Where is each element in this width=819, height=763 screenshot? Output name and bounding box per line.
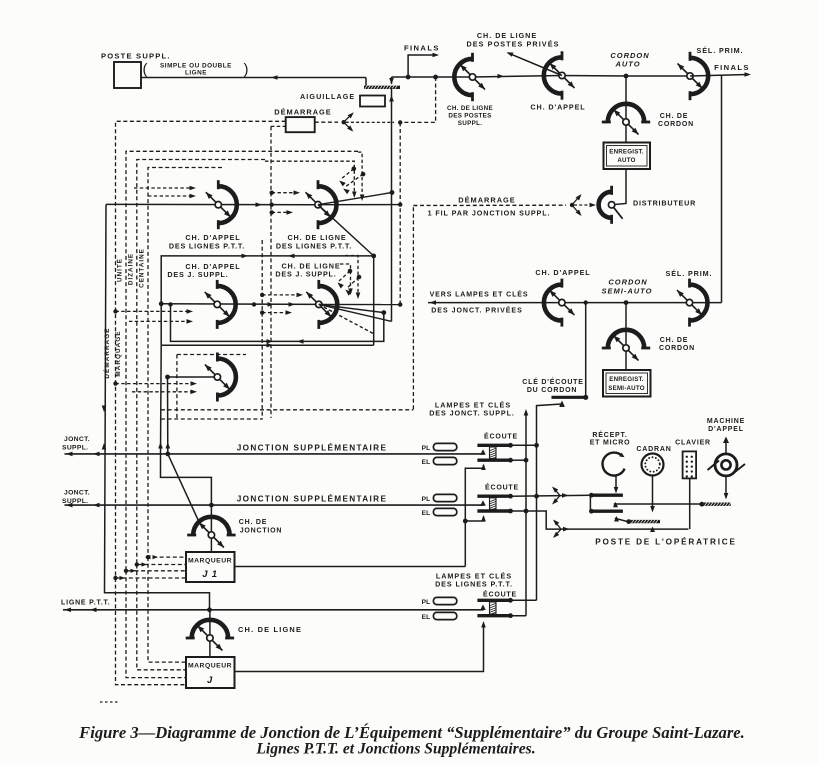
wire clavier down [689,478,691,530]
wire into ch de jonction [210,505,212,552]
ecoute jack 2 bars [477,495,509,498]
fan wires from CH DE LIGNE PTT [318,193,392,205]
svg-text:1 FIL PAR JONCTION SUPPL.: 1 FIL PAR JONCTION SUPPL. [428,209,551,218]
feeder arrows into marqueur J1 [153,555,159,559]
finals output arrow [690,75,748,77]
node [524,509,529,514]
node [381,310,386,315]
box ENREGIST. AUTO [604,143,651,170]
selector DISTRIBUTEUR [599,186,623,224]
node [135,562,139,566]
svg-text:CH. D'APPEL: CH. D'APPEL [535,268,590,277]
svg-text:): ) [244,61,249,78]
dashed marqueur J feeders [148,557,186,662]
box ENREGIST. SEMI-AUTO [603,370,651,397]
hatched bar 2 [628,520,660,523]
label CH. D APPEL DES J. SUPPL. [167,262,240,279]
svg-text:CORDON: CORDON [658,121,694,128]
dashed bus centaine [148,168,222,558]
dashed bus marquage [116,121,286,578]
node [209,503,214,508]
dashed vertical V2 [399,122,401,305]
branch to jack2 [465,517,483,522]
clavier symbol [683,451,697,478]
node [584,300,588,304]
label JONCT. SUPPL. 2 [62,490,90,506]
aiguillage box [360,96,385,107]
svg-text:DES POSTES: DES POSTES [448,113,491,120]
label CLE D ECOUTE DU CORDON [522,377,583,394]
svg-text:CH. DE LIGNE: CH. DE LIGNE [447,105,493,112]
label CH. D APPEL DES LIGNES P.T.T. [169,233,245,251]
node [508,509,513,514]
node [508,494,513,499]
contact triangle bottom wire [650,527,655,533]
machine d appel top arrow [725,440,727,453]
svg-text:SUPPL.: SUPPL. [458,120,483,127]
dashed bus dizaine [137,160,265,565]
node [165,452,170,457]
svg-text:ENREGIST.: ENREGIST. [609,149,644,156]
svg-text:JONCT.: JONCT. [64,436,90,443]
selector CH. D'APPEL DES LIGNES P.T.T. [206,180,237,229]
dashed arrows into CH. DE LIGNE PTT [270,190,301,195]
svg-text:CADRAN: CADRAN [636,446,671,453]
selector CH. D'APPEL (cordon) [544,279,575,327]
svg-text:AUTO: AUTO [617,157,635,164]
label CH. DE JONCTION [239,519,283,535]
dashed cluster right of CH DE LIGNE PTT [358,152,362,198]
svg-text:ÉCOUTE: ÉCOUTE [485,483,519,492]
wire ch d appel down to cle [585,303,587,396]
wire connecting bars [589,495,591,511]
svg-text:(: ( [143,61,148,78]
svg-text:ÉCOUTE: ÉCOUTE [483,590,517,599]
node [113,309,117,313]
node [398,302,402,306]
wire dashes remnant [100,701,120,703]
wire 341 return [171,304,384,341]
dashed vertical V3 [412,207,414,410]
svg-text:RÉCEPT.: RÉCEPT. [592,430,627,439]
marqueur J1 wire up to jack1 [465,465,483,567]
box DEMARRAGE [286,117,315,132]
node [433,75,438,80]
ecoute jack 1 bars [477,444,509,447]
dashed vertical from trunk to demarrage row [400,77,435,122]
svg-text:PL: PL [422,496,431,503]
label CH. DE LIGNE DES LIGNES P.T.T. [276,233,352,251]
node [113,381,117,385]
label CH. DE LIGNE DES POSTES SUPPL. [447,105,493,127]
row2 box right edge [373,256,375,345]
svg-text:CORDON: CORDON [659,345,695,352]
ecoute jack 3 bars [477,599,509,602]
contact triangle jack2 [480,500,486,506]
svg-text:CH. DE: CH. DE [660,337,689,344]
svg-text:J 1: J 1 [202,569,218,580]
node [583,395,588,400]
operator key bar 1 [590,494,623,497]
svg-text:CH. DE LIGNE: CH. DE LIGNE [238,625,302,634]
node [624,300,629,305]
wire cordon semi down [625,303,627,370]
svg-text:CENTAINE: CENTAINE [139,248,146,288]
svg-text:EL: EL [422,459,431,466]
dashed bus unite [126,151,358,571]
svg-text:DIZAINE: DIZAINE [128,253,135,285]
svg-text:VERS LAMPES ET CLÉS: VERS LAMPES ET CLÉS [430,290,529,299]
svg-text:LIGNE P.T.T.: LIGNE P.T.T. [61,600,111,607]
svg-text:DES LIGNES P.T.T.: DES LIGNES P.T.T. [276,242,352,251]
node cordon auto [624,74,629,79]
selector CH. D'APPEL (postes prives) [544,51,575,99]
node [270,203,274,207]
box MARQUEUR J [186,657,235,688]
svg-text:SUPPL.: SUPPL. [62,498,88,505]
aiguillage vertical bus [391,88,393,193]
wire row2 [161,303,319,306]
label CH. DE CORDON (semi) [659,337,695,352]
dashed arrows into CH DE LIGNE J SUPPL [260,293,303,298]
selector CH. DE LIGNE DES POSTES SUPPL. [454,53,485,101]
demarrage solid bus vertical [105,204,210,609]
wire jack1 bottom to bus [511,459,527,461]
svg-text:CH. D'APPEL: CH. D'APPEL [530,103,585,112]
node [398,202,402,206]
label RECEPT. ET MICRO [590,430,631,447]
wire recept down [615,476,617,491]
selector CH. DE LIGNE (bottom) [186,620,234,651]
operator key bar 2 [590,510,623,513]
svg-text:ÉCOUTE: ÉCOUTE [484,432,518,441]
selector SEL. PRIM. (top) [678,52,709,100]
node [508,613,513,618]
svg-text:DÉMARRAGE: DÉMARRAGE [458,196,515,205]
svg-text:PL: PL [422,599,431,606]
node [390,190,395,195]
splay arrows 1 [552,487,569,505]
svg-text:PL: PL [422,445,431,452]
node [534,443,539,448]
svg-text:Lignes P.T.T. et Jonctions Sup: Lignes P.T.T. et Jonctions Supplémentair… [255,741,535,758]
svg-text:JONCTION SUPPLÉMENTAIRE: JONCTION SUPPLÉMENTAIRE [237,443,388,453]
selector CH. DE CORDON (semi) [602,330,650,361]
svg-text:CLAVIER: CLAVIER [675,440,711,447]
selector CH. DE LIGNE DES LIGNES P.T.T. [306,180,337,229]
label LAMPES ET CLES DES LIGNES P.T.T. [435,572,513,589]
wire marqueur J output [235,624,484,672]
svg-text:MARQUEUR: MARQUEUR [188,558,232,565]
svg-text:DES JONCT. SUPPL.: DES JONCT. SUPPL. [429,409,515,418]
wire row3 [168,376,218,378]
svg-text:DES JONCT. PRIVÉES: DES JONCT. PRIVÉES [431,306,523,315]
wire operator line 1 [614,503,701,505]
wire jack2 bottom [511,511,689,529]
svg-text:SUPPL.: SUPPL. [62,445,88,452]
node [626,519,631,524]
svg-text:FINALS: FINALS [404,44,440,53]
box MARQUEUR J1 [186,552,235,582]
label JONCT. SUPPL. 1 [62,436,90,452]
dashed arrows into CH. D APPEL PTT [134,186,196,191]
node [165,375,170,380]
node [508,443,513,448]
finals arrow [408,55,436,77]
left verticals to jonction lines [160,345,163,454]
svg-text:MARQUEUR: MARQUEUR [188,663,232,670]
svg-text:JONCT.: JONCT. [64,490,90,497]
label CH. DE LIGNE DES POSTES PRIVES [467,31,560,49]
svg-text:AIGUILLAGE: AIGUILLAGE [300,92,355,101]
svg-text:POSTE SUPPL.: POSTE SUPPL. [101,52,171,61]
recept et micro symbol [603,453,625,476]
svg-text:POSTE DE L'OPÉRATRICE: POSTE DE L'OPÉRATRICE [595,537,737,547]
splay arrows 2 [553,520,570,539]
dashed from demarrage box to splay [315,121,338,123]
contact triangle jack3 [480,605,486,611]
svg-text:FINALS: FINALS [714,63,750,72]
wire marqueur J1 output [235,566,466,568]
wire finals junction vertical [391,77,393,84]
svg-text:EL: EL [422,510,431,517]
svg-text:EL: EL [422,614,431,621]
node [589,493,594,498]
wire jonction supplementaire 2 [65,504,484,506]
wire jack2 top to operator [511,495,592,496]
fan wires from CH DE LIGNE J SUPPL [319,303,399,305]
wire jack3 top to bus [509,599,536,601]
wire trunk arrow [498,74,505,79]
bus B2 [525,412,527,616]
wire elbow down to aiguillage contact [365,78,367,86]
svg-text:DES POSTES PRIVÉS: DES POSTES PRIVÉS [467,40,560,49]
node finals [406,75,411,80]
svg-text:DISTRIBUTEUR: DISTRIBUTEUR [633,199,696,208]
machine d appel symbol [708,454,746,476]
wire vers lampes et cles [428,302,722,304]
selector CH. DE LIGNE DES J. SUPPL. [306,280,337,329]
svg-text:D'APPEL: D'APPEL [708,426,744,433]
label CH. DE CORDON (auto) [658,113,694,128]
node [534,494,539,499]
wire poste suppl. to aiguillage [141,77,366,79]
node [508,598,513,603]
node [168,302,172,306]
svg-text:LIGNE: LIGNE [185,70,207,77]
svg-text:DÉMARRAGE: DÉMARRAGE [102,327,111,378]
dashed vertical x262 [261,240,263,419]
wire ligne ptt [63,609,484,611]
aiguillage contact bar [364,86,400,89]
label CORDON SEMI-AUTO [602,278,653,296]
selector SEL. PRIM. (mid) [677,279,708,327]
wire jack1 top to bus [511,444,537,446]
label LAMPES ET CLES DES JONCT. SUPPL. [429,401,515,418]
node [589,509,594,514]
bus B1 [537,404,562,600]
svg-text:DÉMARRAGE: DÉMARRAGE [274,108,331,117]
svg-text:DES LIGNES P.T.T.: DES LIGNES P.T.T. [169,242,245,251]
svg-text:JONCTION: JONCTION [240,528,283,535]
node [699,502,704,507]
node [124,569,128,573]
hatched bar right [701,503,731,506]
svg-text:CH. DE: CH. DE [660,113,689,120]
svg-text:ENREGIST.: ENREGIST. [609,376,644,383]
cle d ecoute bar [552,396,588,399]
node [463,519,468,524]
diagonal to ch de jonction [168,454,200,523]
wire operator line 2 [615,518,628,521]
label CORDON AUTO [610,51,649,69]
node [146,555,150,559]
svg-text:SEMI-AUTO: SEMI-AUTO [602,287,653,296]
svg-text:ET MICRO: ET MICRO [590,440,631,447]
wire row1 [106,203,318,205]
contact triangle jack1 [480,449,486,455]
dashed wire demarrage 1 fil [413,204,566,206]
svg-text:J: J [207,675,213,686]
label CH. DE LIGNE DES J. SUPPL. [275,262,340,279]
selector CH. DE JONCTION [187,517,235,548]
svg-text:SÉL. PRIM.: SÉL. PRIM. [697,46,744,55]
cadran symbol [642,454,664,476]
dashed bottom lines [161,409,413,411]
svg-text:CH. DE: CH. DE [239,519,268,526]
contact triangle [560,401,565,407]
selector CH. DE CORDON (auto) [602,104,650,135]
svg-text:AUTO: AUTO [614,60,640,69]
node [113,576,117,580]
svg-text:MACHINE: MACHINE [707,418,745,425]
node [207,607,212,612]
svg-text:DES LIGNES P.T.T.: DES LIGNES P.T.T. [435,580,513,589]
dashed stub below demarrage box [271,125,286,127]
row2 box bottom [161,344,374,346]
main trunk wire top [392,76,691,78]
node [252,302,256,306]
svg-text:DES J. SUPPL.: DES J. SUPPL. [275,270,336,279]
label VERS LAMPES ET CLES [430,290,529,315]
wire jonction supplementaire 1 [65,453,484,455]
wire into ch de ligne [209,610,211,657]
label MACHINE D APPEL [707,418,745,433]
node [159,301,164,306]
label (SIMPLE OU DOUBLE LIGNE) [143,61,249,78]
arrow to DES POSTES PRIVES label [508,53,562,76]
dashed arrows into row2 from left [116,309,194,314]
poste suppl. box [114,62,141,88]
svg-text:CLÉ D'ÉCOUTE: CLÉ D'ÉCOUTE [522,377,583,386]
svg-text:SIMPLE OU DOUBLE: SIMPLE OU DOUBLE [160,63,232,70]
svg-text:Figure 3—Diagramme de Jonction: Figure 3—Diagramme de Jonction de L’Équi… [78,723,745,742]
machine d appel down wire [725,476,727,496]
wire right trunk down [721,76,723,303]
dashed cluster right of CH DE LIGNE J SUPPL [345,256,358,297]
row2 enclosure box top [161,256,374,345]
node [398,120,402,124]
dashed arrows below row3 hub [116,381,198,386]
wire enregist to distributeur [612,169,626,205]
node [508,458,513,463]
node [371,254,376,259]
selector CH. DE JONCTION (row3) [205,353,236,402]
row3 dashed box [177,354,246,356]
central dashed vertical [270,126,272,418]
node [524,458,529,463]
wire jack3 bottom to bus [509,615,526,617]
wire cadran down [652,476,654,510]
demarrage splay arrows [570,203,574,207]
demarrage splay arrows (top) [342,112,395,131]
svg-text:DU CORDON: DU CORDON [527,387,577,394]
svg-text:SEMI-AUTO: SEMI-AUTO [608,385,644,392]
svg-text:DES J. SUPPL.: DES J. SUPPL. [167,270,228,279]
svg-text:CORDON: CORDON [608,278,647,287]
wire cordon auto down [625,76,627,143]
svg-text:JONCTION SUPPLÉMENTAIRE: JONCTION SUPPLÉMENTAIRE [237,494,388,504]
selector CH. D'APPEL DES J. SUPPL. [205,280,236,329]
svg-text:SÉL. PRIM.: SÉL. PRIM. [666,269,713,278]
